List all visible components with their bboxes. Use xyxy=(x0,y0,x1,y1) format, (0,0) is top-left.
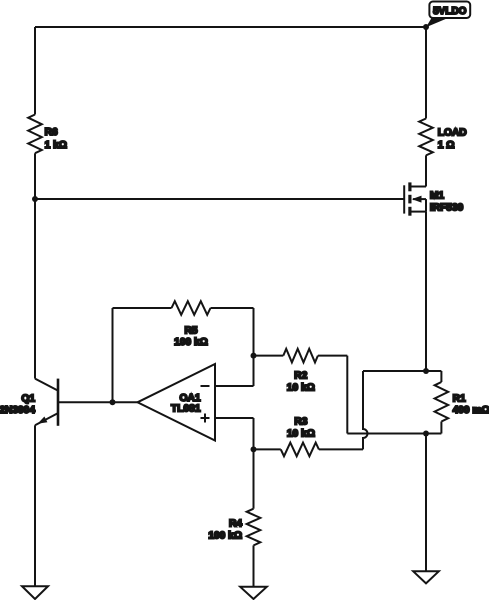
wire left rail upper xyxy=(34,27,36,115)
node gate-net junction xyxy=(32,196,38,202)
svg-text:1 Ω: 1 Ω xyxy=(438,140,455,151)
svg-text:10 kΩ: 10 kΩ xyxy=(287,382,315,393)
ground left xyxy=(22,586,48,599)
transistor Q1 2N3904 xyxy=(0,379,58,426)
node R2 tap junction xyxy=(251,353,257,359)
wire feedback vertical xyxy=(112,308,114,402)
node R1 top junction xyxy=(423,368,429,374)
resistor R2 xyxy=(254,349,348,394)
svg-text:R1: R1 xyxy=(453,393,466,404)
svg-text:100 kΩ: 100 kΩ xyxy=(174,337,208,348)
svg-text:R3: R3 xyxy=(294,417,307,428)
wire source rail to R1 xyxy=(425,212,427,371)
wire Q1 emitter down xyxy=(34,425,36,586)
svg-text:OA1: OA1 xyxy=(180,393,201,404)
wire non-inverting input xyxy=(215,417,254,419)
svg-text:M1: M1 xyxy=(430,190,444,201)
op-amp OA1 TL081 xyxy=(138,364,216,441)
wire R1 top sense line xyxy=(363,370,441,372)
wire left rail to Q1 collector xyxy=(34,153,36,378)
svg-text:R2: R2 xyxy=(294,370,307,381)
resistor R5 xyxy=(172,301,211,348)
transistor M1 IRF530 xyxy=(404,182,463,215)
node R1 bottom junction xyxy=(423,431,429,437)
wire top rail xyxy=(35,26,426,28)
wire Q1 base / op-amp output xyxy=(58,401,138,403)
node base junction xyxy=(110,399,116,405)
ground right xyxy=(413,571,439,583)
wire right rail upper xyxy=(425,27,427,119)
wire feedback top right lead xyxy=(211,307,254,309)
net flag 5VLDO xyxy=(426,2,470,28)
wire drain rail xyxy=(425,155,427,186)
ground middle xyxy=(240,587,267,599)
wire inverting vertical xyxy=(253,308,255,386)
wire right rail lower xyxy=(425,434,427,572)
node 5VLDO junction xyxy=(423,24,429,30)
svg-text:IRF530: IRF530 xyxy=(430,203,464,214)
wire non-inverting vertical xyxy=(253,418,255,449)
resistor R3 xyxy=(254,417,364,457)
svg-text:100 kΩ: 100 kΩ xyxy=(208,530,242,541)
node R3/R4 junction xyxy=(251,446,257,452)
resistor R6 xyxy=(28,115,67,154)
svg-text:5VLDO: 5VLDO xyxy=(433,6,467,17)
resistor R1 xyxy=(435,371,489,434)
svg-text:2N3904: 2N3904 xyxy=(0,405,35,416)
wire R1 bottom sense line xyxy=(347,433,441,435)
svg-text:R5: R5 xyxy=(184,325,197,336)
wire LOAD to drain xyxy=(425,155,427,186)
svg-text:1 kΩ: 1 kΩ xyxy=(45,140,67,151)
wire R3 vertical with hop over R2 line xyxy=(363,371,368,449)
wire inverting input xyxy=(215,385,254,387)
resistor R4 xyxy=(208,449,260,586)
svg-text:Q1: Q1 xyxy=(21,393,35,404)
wire R2 vertical down xyxy=(346,356,348,434)
svg-text:LOAD: LOAD xyxy=(438,127,467,138)
wire feedback top left lead xyxy=(113,307,172,309)
svg-text:R6: R6 xyxy=(45,127,58,138)
wire gate net xyxy=(35,198,404,200)
svg-text:TL081: TL081 xyxy=(171,404,201,415)
svg-text:10 kΩ: 10 kΩ xyxy=(287,429,315,440)
svg-text:R4: R4 xyxy=(229,519,242,530)
resistor LOAD xyxy=(419,119,466,156)
svg-text:400 mΩ: 400 mΩ xyxy=(453,405,489,416)
